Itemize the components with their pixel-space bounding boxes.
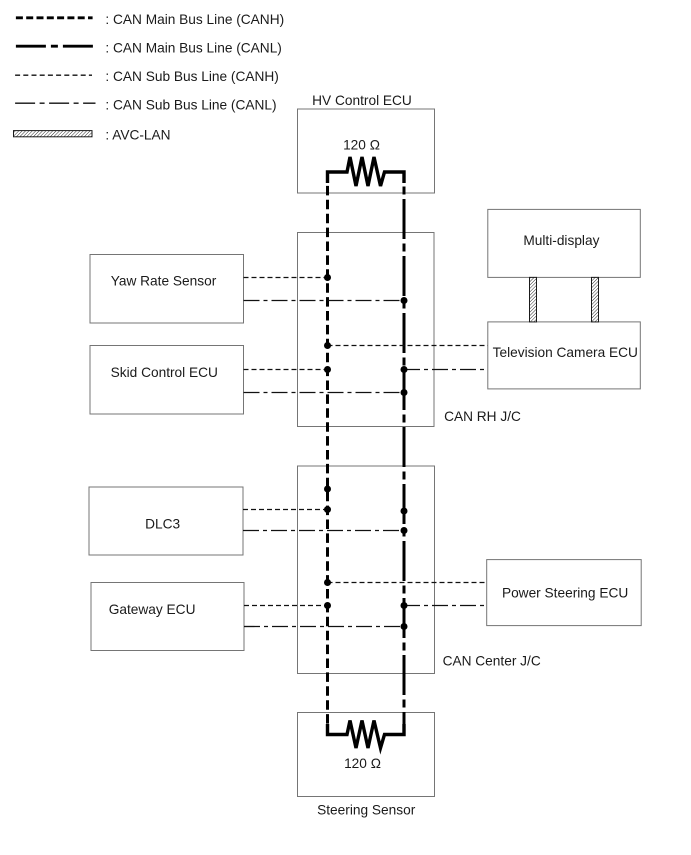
svg-text:: AVC-LAN: : AVC-LAN bbox=[105, 128, 170, 143]
box Skid Control ECU bbox=[90, 346, 244, 415]
svg-text:120 Ω: 120 Ω bbox=[344, 756, 381, 771]
box Multi-display bbox=[488, 209, 641, 277]
junction dot CANH / Television Camera ECU bbox=[324, 342, 331, 349]
wire sub bus CANL: Skid Control ECU to CANL bbox=[244, 392, 405, 394]
wire CANL main bus line (vertical, thick dash-dot) bbox=[403, 172, 406, 735]
junction dot CANL / Yaw Rate Sensor bbox=[401, 297, 408, 304]
svg-text:: CAN Sub Bus Line (CANH): : CAN Sub Bus Line (CANH) bbox=[105, 69, 278, 84]
wire sub bus CANL: DLC3 to CANL bbox=[243, 530, 404, 532]
box Television Camera ECU bbox=[488, 322, 641, 389]
box HV Control ECU bbox=[298, 109, 435, 193]
wire sub bus CANL: CANL to Power Steering ECU bbox=[404, 605, 487, 607]
legend sample: CAN Sub Bus Line CANL (thin dash-dot) bbox=[15, 102, 95, 104]
junction dot CANL upper (CAN Center J/C) bbox=[401, 508, 408, 515]
svg-text:Steering Sensor: Steering Sensor bbox=[317, 803, 416, 818]
junction dot CANH / Gateway ECU bbox=[324, 602, 331, 609]
svg-text:CAN RH J/C: CAN RH J/C bbox=[444, 409, 521, 424]
junction dot CANL / Television Camera ECU bbox=[401, 366, 408, 373]
wire sub bus CANH: Yaw Rate Sensor to CANH bbox=[244, 277, 328, 279]
svg-text:: CAN Main Bus Line (CANH): : CAN Main Bus Line (CANH) bbox=[105, 12, 284, 27]
wire sub bus CANH: CANH to Power Steering ECU bbox=[328, 582, 487, 584]
junction dot CANH / Yaw Rate Sensor bbox=[324, 274, 331, 281]
junction dot CANL / DLC3 bbox=[401, 527, 408, 534]
junction dot CANH upper (CAN Center J/C) bbox=[324, 486, 331, 493]
svg-text:: CAN Sub Bus Line (CANL): : CAN Sub Bus Line (CANL) bbox=[105, 97, 276, 112]
wire sub bus CANH: CANH to Television Camera ECU bbox=[328, 345, 488, 347]
junction dot CANL / Skid Control ECU bbox=[401, 389, 408, 396]
svg-text:120 Ω: 120 Ω bbox=[343, 138, 380, 153]
svg-text:Gateway ECU: Gateway ECU bbox=[109, 602, 196, 617]
box DLC3 bbox=[89, 487, 243, 555]
legend sample: AVC-LAN hatched bar bbox=[14, 131, 93, 137]
wire CANH main bus line (vertical, thick dashed) bbox=[326, 172, 329, 735]
svg-text:Yaw Rate Sensor: Yaw Rate Sensor bbox=[111, 274, 217, 289]
legend sample: CAN Main Bus Line CANH (thick dashed) bbox=[16, 16, 93, 19]
resistor R2 120 ohm (Steering Sensor terminating resistor) bbox=[328, 721, 405, 749]
wire sub bus CANH: DLC3 to CANH bbox=[243, 509, 328, 511]
junction dot CANL / Gateway ECU bbox=[401, 623, 408, 630]
legend sample: CAN Sub Bus Line CANH (thin dashed) bbox=[15, 74, 92, 76]
AVC-LAN bar right (Multi-display to Television Camera ECU) bbox=[592, 277, 599, 322]
svg-text:Multi-display: Multi-display bbox=[523, 233, 599, 248]
junction dot CANL / Power Steering ECU bbox=[401, 602, 408, 609]
svg-text:Television Camera ECU: Television Camera ECU bbox=[493, 345, 638, 360]
svg-text:: CAN Main Bus Line (CANL): : CAN Main Bus Line (CANL) bbox=[105, 40, 281, 55]
svg-text:Power Steering ECU: Power Steering ECU bbox=[502, 586, 628, 601]
wire sub bus CANL: Gateway ECU to CANL bbox=[244, 626, 404, 628]
box CAN RH J/C bbox=[298, 233, 435, 427]
wire sub bus CANH: Gateway ECU to CANH bbox=[244, 605, 328, 607]
svg-text:DLC3: DLC3 bbox=[145, 517, 180, 532]
svg-text:Skid Control ECU: Skid Control ECU bbox=[111, 365, 218, 380]
wire sub bus CANL: CANL to Television Camera ECU bbox=[404, 369, 488, 371]
box CAN Center J/C bbox=[298, 466, 435, 674]
box Steering Sensor bbox=[298, 713, 435, 797]
svg-text:HV Control ECU: HV Control ECU bbox=[312, 93, 412, 108]
box Yaw Rate Sensor bbox=[90, 255, 244, 324]
box Gateway ECU bbox=[91, 583, 244, 651]
wire sub bus CANH: Skid Control ECU to CANH bbox=[244, 369, 328, 371]
legend sample: CAN Main Bus Line CANL (thick dash-dot) bbox=[16, 45, 96, 48]
junction dot CANH / Skid Control ECU bbox=[324, 366, 331, 373]
junction dot CANH / Power Steering ECU bbox=[324, 579, 331, 586]
svg-text:CAN Center J/C: CAN Center J/C bbox=[443, 654, 541, 669]
resistor R1 120 ohm (HV Control ECU terminating resistor) bbox=[328, 157, 405, 186]
wire sub bus CANL: Yaw Rate Sensor to CANL bbox=[244, 300, 405, 302]
junction dot CANH / DLC3 bbox=[324, 506, 331, 513]
box Power Steering ECU bbox=[487, 560, 642, 626]
AVC-LAN bar left (Multi-display to Television Camera ECU) bbox=[530, 277, 537, 322]
